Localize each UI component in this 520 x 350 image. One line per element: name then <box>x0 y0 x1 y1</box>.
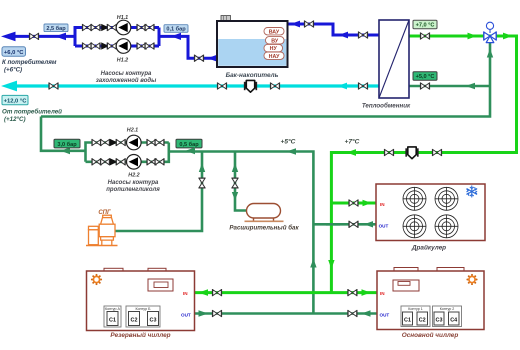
arrow: blue flow left after merge <box>171 33 181 40</box>
compressor C4 main <box>449 312 460 325</box>
arrow: into main chiller (right) <box>362 289 371 296</box>
drycooler (Драйкулер) <box>376 184 485 241</box>
label: 0.1 бар <box>164 25 188 33</box>
valve: HX glycol return <box>420 82 429 89</box>
arrow: up on LNG branch <box>199 163 205 172</box>
valve: drycooler inlet <box>349 199 358 206</box>
valve: LNG branch <box>198 178 205 188</box>
label: 0.5 бар <box>176 139 202 148</box>
arrow: supply to consumers (blue big) <box>1 32 16 42</box>
svg-text:OUT: OUT <box>380 312 390 317</box>
wire: heat exchanger glycol outlet (dark green) <box>409 85 490 88</box>
label: +5.0 C box <box>413 72 437 80</box>
svg-text:Драйкулер: Драйкулер <box>411 244 446 252</box>
label: +12.0 C box <box>2 95 28 104</box>
valve: +7 line left of filter <box>384 149 393 156</box>
svg-text:2,5 бар: 2,5 бар <box>46 25 66 32</box>
arrow: into reserve chiller (left) <box>199 289 209 296</box>
pump H2.2 <box>127 155 142 170</box>
valve: HX primary inlet <box>358 31 367 38</box>
arrow: blue flow left on main <box>55 33 66 41</box>
arrow: blue into pumps from tank <box>208 55 218 62</box>
svg-text:Теплообменник: Теплообменник <box>362 103 411 110</box>
wire: glycol pump circuit (dark green) <box>41 117 313 314</box>
valve: cyan middle left <box>217 82 226 89</box>
arrow: out of main chiller (left) <box>362 310 371 316</box>
check valve H1.1 branch <box>102 24 108 30</box>
valve: cyan left <box>49 82 58 89</box>
svg-text:Насосы контура: Насосы контура <box>108 180 159 186</box>
valve: +7 line right of filter <box>432 149 441 156</box>
label: 2.5 бар <box>44 24 68 32</box>
svg-text:+6,0 °С: +6,0 °С <box>4 50 24 56</box>
svg-text:ВУ: ВУ <box>271 38 279 44</box>
svg-text:Контур А: Контур А <box>105 307 121 311</box>
valve: reserve chiller outlet <box>212 310 221 317</box>
label: +7.0 C box <box>413 20 437 28</box>
check valve H2.2 branch <box>110 159 116 165</box>
svg-text:НАУ: НАУ <box>269 54 280 60</box>
wire: drycooler inlet (bright green) <box>331 202 376 205</box>
wire: return from consumers (cyan) <box>14 84 379 87</box>
svg-text:С3: С3 <box>436 318 443 324</box>
display reserve chiller <box>148 279 173 291</box>
arrow: cyan big to consumers-return start <box>1 81 17 92</box>
arrow: bright green down (supply riser) <box>328 260 334 269</box>
wire: LNG vessel branch (dark green) <box>115 152 202 232</box>
arrow: into drycooler <box>363 200 372 207</box>
reserve chiller (Резервный чиллер) <box>87 268 195 330</box>
wire: heat-exchanger to storage-tank line (blue) <box>288 24 380 35</box>
svg-text:+7°С: +7°С <box>345 138 360 146</box>
arrow: dark green up (return riser) <box>310 259 316 268</box>
fan 4 <box>435 215 458 238</box>
compressor C1 <box>107 312 118 326</box>
svg-text:Расширительный бак: Расширительный бак <box>229 225 299 232</box>
wire: expansion tank branch (dark green) <box>235 152 247 211</box>
compressor C2 <box>129 312 140 326</box>
valve: cyan middle right <box>270 82 279 89</box>
valve: main chiller outlet <box>348 310 357 317</box>
valve: expansion branch <box>231 178 238 188</box>
pump H2.1 branch valves <box>92 139 101 146</box>
wire: cold glycol supply (bright green) <box>331 36 516 293</box>
valve: tank top outlet <box>304 20 313 27</box>
wire: drycooler outlet (dark green) <box>313 223 376 226</box>
svg-text:+5°С: +5°С <box>281 138 296 146</box>
compressor group Контур Б <box>126 306 160 327</box>
arrow: bright green left on +7 line <box>347 149 357 156</box>
arrow: out of drycooler (left) <box>364 221 373 227</box>
svg-text:Н1.1: Н1.1 <box>117 15 128 21</box>
arrow: dark green left on +5 line <box>287 148 297 155</box>
svg-text:0,1 бар: 0,1 бар <box>166 26 186 33</box>
check valve H1.2 branch <box>102 43 108 49</box>
arrow: dark green up to 3-way <box>487 49 493 58</box>
fan 2 <box>435 187 458 210</box>
check valve H2.1 branch <box>110 139 116 145</box>
wire: chiller inlet header (bright green) <box>195 291 378 294</box>
pump H1.2 branch valves <box>82 42 91 49</box>
svg-text:3,0 бар: 3,0 бар <box>57 141 77 148</box>
svg-text:Контур Б: Контур Б <box>136 307 152 311</box>
valve: reserve chiller inlet <box>212 289 221 296</box>
compressor C2 main <box>417 312 428 325</box>
valve: HX glycol outlet <box>420 32 429 39</box>
compressor group Контур 2 <box>433 306 462 327</box>
tank level label ВАУ <box>264 28 284 36</box>
svg-text:Н2.1: Н2.1 <box>127 128 138 134</box>
three-way mixing valve (blue) <box>484 22 496 42</box>
svg-text:Н2.2: Н2.2 <box>128 173 139 179</box>
compressor group Контур 1 <box>401 306 430 327</box>
svg-text:С1: С1 <box>404 318 411 324</box>
heat exchanger U1 (Теплообменник) <box>379 20 409 98</box>
compressor C1 main <box>403 312 413 325</box>
valve: main chiller inlet <box>348 289 357 296</box>
arrow: out of reserve chiller (right) <box>199 310 209 316</box>
snowflake icon <box>467 186 477 197</box>
valve: HX secondary return inlet <box>358 82 367 89</box>
valve: blue main line <box>29 33 38 40</box>
compressor C3 <box>148 312 159 326</box>
arrow: down on expansion branch <box>232 192 238 201</box>
compressor C3 main <box>434 312 444 325</box>
tank level label НУ <box>264 44 283 52</box>
arrow: glycol pump discharge left <box>61 147 71 154</box>
svg-text:С2: С2 <box>419 318 426 324</box>
wire: chilled-water supply main (blue) <box>13 28 217 59</box>
compressor group Контур А <box>104 306 121 327</box>
svg-text:Основной чиллер: Основной чиллер <box>402 331 459 339</box>
svg-text:захоложенной воды: захоложенной воды <box>96 77 157 84</box>
svg-text:С3: С3 <box>150 318 157 324</box>
sun icon main chiller <box>466 274 477 285</box>
label: +6.0 C box <box>2 47 26 56</box>
fan 3 <box>403 215 426 238</box>
svg-text:Н1.2: Н1.2 <box>117 58 128 64</box>
pump H2.1 <box>127 135 142 150</box>
svg-text:пропиленгликоля: пропиленгликоля <box>106 187 160 193</box>
svg-text:OUT: OUT <box>379 224 389 229</box>
arrow: bright green after 3-way <box>503 33 513 40</box>
svg-text:От потребителей: От потребителей <box>2 109 62 116</box>
svg-text:Бак-накопитель: Бак-накопитель <box>226 72 279 79</box>
sun icon reserve chiller <box>91 274 102 285</box>
label: 3.0 бар <box>54 139 80 148</box>
storage tank (Бак-накопитель) <box>217 16 288 68</box>
svg-text:+7,0 °С: +7,0 °С <box>416 23 435 29</box>
svg-text:0,5 бар: 0,5 бар <box>179 141 199 148</box>
svg-text:Насосы контура: Насосы контура <box>101 71 152 77</box>
svg-text:OUT: OUT <box>181 312 191 317</box>
svg-text:НУ: НУ <box>270 46 278 52</box>
svg-text:(+6°С): (+6°С) <box>4 67 22 74</box>
wire: drycooler outlet crossing patch (dark green over) <box>326 223 340 226</box>
pump H1.1 branch valves <box>82 24 91 31</box>
pump H2.2 branch valves <box>92 158 101 165</box>
svg-text:С1: С1 <box>109 318 116 324</box>
svg-text:IN: IN <box>380 202 385 207</box>
LNG vessel icon <box>86 215 118 245</box>
arrow: cyan flow marker before HX <box>338 83 348 90</box>
wire: chiller outlet header (dark green) <box>195 312 378 315</box>
svg-text:Контур 1: Контур 1 <box>408 307 423 311</box>
filter: cyan strainer <box>245 80 257 92</box>
arrow: blue into tank <box>291 21 301 28</box>
arrow: dark green toward HX <box>466 83 476 89</box>
svg-text:Контур 2: Контур 2 <box>440 307 455 311</box>
svg-text:С2: С2 <box>131 318 138 324</box>
arrow: blue toward tank elbow <box>339 32 349 39</box>
svg-text:К потребителям: К потребителям <box>2 59 57 66</box>
expansion tank (Расширительный бак) <box>245 204 284 222</box>
wire: glycol warm return long header (dark green) <box>41 36 490 117</box>
arrow: bright green to 3-way <box>468 33 478 40</box>
svg-text:IN: IN <box>380 291 385 296</box>
pump H1.2 <box>116 39 131 54</box>
fan 1 <box>403 187 426 210</box>
tank level label ВУ <box>266 37 285 45</box>
valve: drycooler outlet <box>349 221 358 228</box>
valve: tank suction <box>194 55 203 62</box>
tank level label НАУ <box>264 52 284 60</box>
svg-text:+5,0 °С: +5,0 °С <box>416 74 435 80</box>
svg-text:(+12°С): (+12°С) <box>4 116 26 123</box>
svg-text:ВАУ: ВАУ <box>269 29 280 35</box>
svg-text:IN: IN <box>183 291 188 296</box>
arrow: dark green flow left into pumps <box>186 147 196 154</box>
pump H1.1 <box>116 20 131 35</box>
display main chiller <box>393 280 419 291</box>
svg-text:Резервный чиллер: Резервный чиллер <box>110 331 170 339</box>
svg-text:+12,0 °С: +12,0 °С <box>4 99 28 105</box>
main chiller (Основной чиллер) <box>377 268 484 330</box>
arrow: up on expansion branch <box>232 163 238 172</box>
svg-text:С4: С4 <box>450 318 457 324</box>
filter: +7 line strainer <box>406 147 418 159</box>
